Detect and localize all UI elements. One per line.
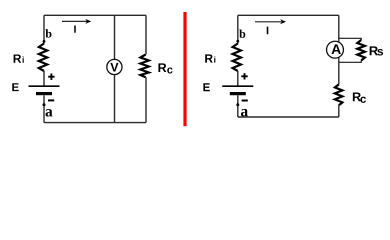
wire right branch lower (left circuit) [145, 77, 147, 122]
ammeter A circle [327, 41, 344, 58]
wire voltmeter branch upper [114, 15, 116, 59]
label Ri (right) [205, 54, 213, 62]
wire right branch upper (left circuit) [145, 15, 147, 54]
battery E positive plate (right) [222, 85, 253, 87]
battery + sign (left) [48, 76, 54, 78]
resistor Ri (left circuit) [39, 44, 47, 72]
wire left upper (right circuit) [237, 15, 239, 43]
wire top (right circuit) [238, 14, 339, 16]
label E (left) [12, 83, 18, 91]
label Rc (right) [353, 92, 361, 101]
resistor Ri (right circuit) [233, 44, 241, 72]
label I (right) [267, 27, 269, 35]
wire below ammeter [338, 58, 340, 85]
label b (right) [239, 29, 245, 37]
wire Ri to battery [43, 71, 45, 86]
shunt bottom wire [339, 61, 361, 63]
node a (right) [236, 103, 239, 106]
wire voltmeter branch lower [114, 75, 116, 123]
current arrow (right circuit) [255, 21, 282, 23]
battery E positive plate (left) [29, 85, 60, 87]
wire battery to bottom [43, 95, 45, 122]
label Ri (left) [14, 54, 22, 62]
voltmeter V letter [110, 63, 118, 72]
battery + sign (right) [241, 75, 247, 77]
battery - sign (right) [242, 100, 248, 102]
label a (right) [241, 109, 248, 116]
label b (left) [45, 29, 51, 37]
label a (left) [46, 109, 53, 116]
wire right branch upper (right circuit) [338, 15, 340, 42]
battery - sign (left) [48, 99, 54, 101]
node a (left) [43, 103, 46, 106]
node b (right) [236, 40, 239, 43]
ammeter A letter [331, 44, 340, 54]
wire left upper (b to Ri) [43, 15, 45, 43]
battery E negative plate (left) [36, 92, 52, 95]
resistor Rs (shunt) [357, 40, 365, 61]
battery E negative plate (right) [230, 92, 246, 95]
label I (left) [74, 25, 76, 32]
label Rs [370, 46, 378, 55]
label E (right) [203, 83, 209, 91]
node b (left) [43, 40, 46, 43]
wire top (left circuit) [44, 14, 146, 16]
wire battery to bottom (right) [237, 95, 239, 117]
wire bottom (right circuit) [238, 116, 339, 118]
wire Ri to battery (right) [237, 71, 239, 86]
shunt top wire [339, 38, 361, 40]
voltmeter V circle [107, 59, 122, 74]
current arrow (left circuit) [62, 20, 87, 22]
wire bottom (left circuit) [44, 122, 146, 124]
resistor Rc (right circuit) [335, 84, 343, 105]
wire below Rc to bottom corner [338, 105, 340, 117]
resistor Rc (left circuit) [140, 55, 148, 78]
label Rc (left) [158, 63, 166, 72]
